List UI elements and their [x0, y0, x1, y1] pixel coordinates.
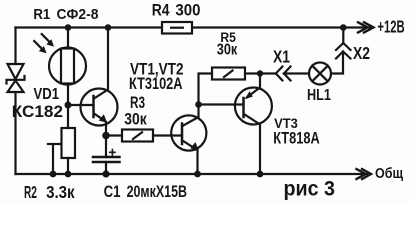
svg-text:КС182: КС182 — [12, 103, 63, 121]
svg-text:30к: 30к — [124, 109, 147, 128]
svg-text:X1: X1 — [273, 47, 290, 67]
svg-text:VD1: VD1 — [34, 86, 60, 103]
svg-text:R1: R1 — [33, 6, 50, 23]
svg-text:КТ3102А: КТ3102А — [129, 75, 183, 93]
svg-text:X2: X2 — [353, 43, 370, 63]
svg-text:С1: С1 — [104, 183, 121, 201]
svg-text:+12В: +12В — [377, 17, 404, 37]
svg-text:R2: R2 — [24, 182, 37, 202]
svg-text:HL1: HL1 — [307, 87, 331, 104]
svg-text:R4: R4 — [152, 0, 170, 19]
svg-text:рис 3: рис 3 — [284, 177, 336, 201]
svg-text:Общ: Общ — [375, 165, 403, 182]
svg-text:КТ818А: КТ818А — [273, 130, 320, 148]
svg-text:300: 300 — [175, 0, 200, 19]
svg-text:20мкХ15В: 20мкХ15В — [127, 183, 187, 201]
svg-text:СФ2-8: СФ2-8 — [57, 6, 99, 23]
svg-text:3.3к: 3.3к — [46, 182, 75, 202]
svg-text:30к: 30к — [217, 42, 238, 59]
